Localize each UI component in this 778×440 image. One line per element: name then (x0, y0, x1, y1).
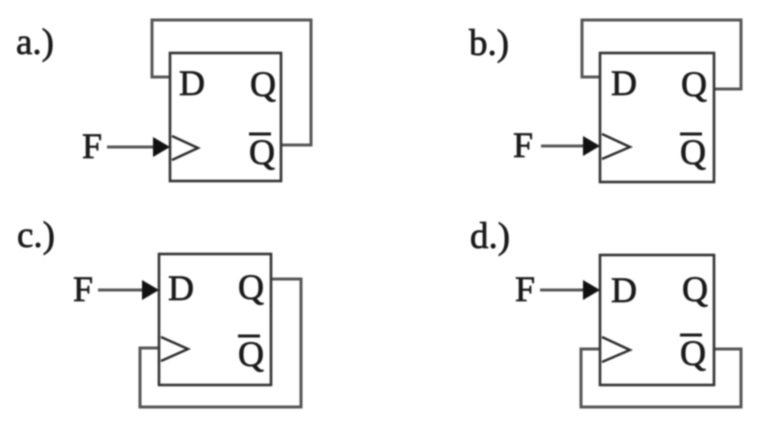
svg-text:D: D (611, 63, 637, 103)
svg-text:F: F (513, 125, 533, 165)
svg-text:F: F (82, 126, 102, 166)
svg-text:Q: Q (682, 269, 708, 309)
svg-text:D: D (168, 268, 194, 308)
svg-text:Q: Q (680, 333, 706, 373)
svg-text:Q: Q (681, 64, 707, 104)
svg-text:Q: Q (238, 334, 264, 374)
svg-text:b.): b.) (469, 23, 509, 64)
svg-text:Q: Q (238, 267, 264, 307)
svg-text:F: F (73, 269, 93, 309)
svg-text:D: D (179, 63, 205, 103)
svg-text:Q: Q (680, 132, 706, 172)
svg-text:d.): d.) (470, 216, 510, 257)
svg-text:Q: Q (250, 64, 276, 104)
svg-text:F: F (515, 269, 535, 309)
svg-text:c.): c.) (17, 215, 55, 256)
svg-text:a.): a.) (16, 22, 54, 63)
svg-text:Q: Q (249, 132, 275, 172)
svg-text:D: D (611, 270, 637, 310)
